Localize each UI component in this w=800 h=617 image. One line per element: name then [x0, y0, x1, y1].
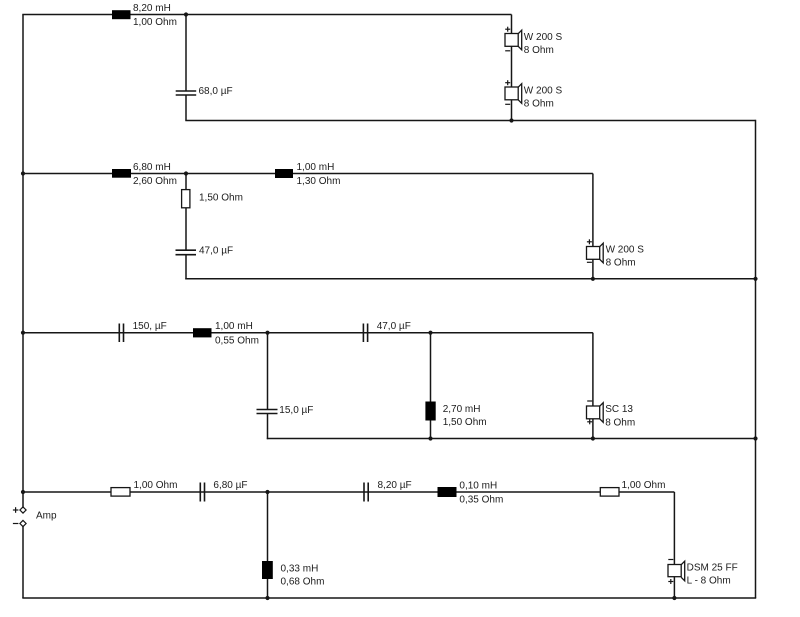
wire below second W200S to return: [511, 99, 513, 121]
wire section 3 return: [267, 438, 756, 440]
wire 68uF branch lower: [185, 95, 187, 121]
svg-text:0,33 mH: 0,33 mH: [281, 564, 319, 575]
svg-text:1,50 Ohm: 1,50 Ohm: [199, 192, 243, 203]
wire below SC13 speaker: [592, 418, 594, 439]
svg-text:1,00 Ohm: 1,00 Ohm: [133, 17, 177, 28]
svg-text:1,00 Ohm: 1,00 Ohm: [134, 480, 178, 491]
wire between W200S speakers: [511, 46, 513, 87]
capacitor 47.0 uF (section 3 series 2): [363, 321, 410, 342]
svg-text:2,60 Ohm: 2,60 Ohm: [133, 176, 177, 187]
svg-text:1,30 Ohm: 1,30 Ohm: [297, 176, 341, 187]
wire 68uF branch upper: [185, 15, 187, 92]
inductor 1.00 mH (section 3 series): [193, 321, 259, 346]
wire R-C branch: resistor to cap: [185, 208, 187, 250]
node junction DSM return: [672, 596, 676, 600]
wire section 3 feed: [23, 332, 593, 334]
svg-text:0,68 Ohm: 0,68 Ohm: [281, 577, 325, 588]
node junction left rail section 3: [21, 331, 25, 335]
wire 0.33mH branch lower: [267, 579, 269, 598]
svg-text:8 Ohm: 8 Ohm: [524, 45, 554, 56]
svg-text:1,50 Ohm: 1,50 Ohm: [443, 417, 487, 428]
wire bottom return: [22, 597, 756, 599]
node junction section 2 return right rail: [753, 277, 757, 281]
wire below DSM speaker: [673, 577, 675, 599]
svg-text:47,0 µF: 47,0 µF: [377, 321, 411, 332]
inductor 2.70 mH (section 3 shunt): [425, 402, 486, 428]
svg-text:0,10 mH: 0,10 mH: [459, 480, 497, 491]
capacitor 68.0 uF (section 1 shunt): [176, 86, 233, 97]
wire R-C branch: junction to resistor: [185, 174, 187, 190]
svg-text:1,00 mH: 1,00 mH: [215, 321, 253, 332]
speaker W 200 S (section 2): [587, 239, 645, 268]
capacitor 15.0 uF (section 3 shunt): [257, 405, 314, 416]
amp terminal + (diamond): [13, 507, 26, 513]
node junction 2.7mH branch top: [428, 331, 432, 335]
svg-text:0,55 Ohm: 0,55 Ohm: [215, 335, 259, 346]
wire 2.7mH branch upper: [430, 333, 432, 402]
node junction section 2 speaker return: [591, 277, 595, 281]
inductor 0.10 mH (section 4 series): [438, 480, 504, 505]
wire section 2 speaker drop: [592, 174, 594, 247]
speaker W 200 S lower: [505, 80, 562, 109]
svg-text:8,20 µF: 8,20 µF: [378, 480, 412, 491]
svg-text:47,0 µF: 47,0 µF: [199, 246, 233, 257]
svg-text:8,20 mH: 8,20 mH: [133, 3, 171, 14]
wire 2.7mH branch lower: [430, 421, 432, 439]
svg-text:2,70 mH: 2,70 mH: [443, 404, 481, 415]
capacitor 6.80 uF (section 4 series): [200, 480, 247, 501]
svg-text:8 Ohm: 8 Ohm: [605, 417, 635, 428]
wire right rail: [755, 120, 757, 598]
capacitor 47.0 uF (section 2 shunt): [176, 246, 234, 257]
node junction left rail section 2: [21, 171, 25, 175]
wire 0.33mH branch upper: [267, 492, 269, 561]
svg-text:1,00 Ohm: 1,00 Ohm: [622, 480, 666, 491]
resistor 1.00 Ohm (section 4 left): [111, 480, 177, 496]
speaker SC 13 (section 3, reversed polarity): [587, 401, 636, 428]
svg-text:8 Ohm: 8 Ohm: [606, 258, 636, 269]
wire section 1 speaker drop: [511, 15, 513, 35]
svg-text:SC 13: SC 13: [605, 404, 633, 415]
svg-text:W 200 S: W 200 S: [606, 244, 645, 255]
svg-text:68,0 µF: 68,0 µF: [199, 86, 233, 97]
wire left rail lower (amp - to bottom): [22, 527, 24, 599]
wire section 4 feed: [23, 491, 674, 493]
svg-text:W 200 S: W 200 S: [524, 85, 563, 96]
svg-text:0,35 Ohm: 0,35 Ohm: [459, 495, 503, 506]
wire 15uF branch lower: [267, 414, 269, 440]
node junction 0.33mH branch bottom: [265, 596, 269, 600]
node junction 15uF branch: [265, 331, 269, 335]
svg-text:6,80 mH: 6,80 mH: [133, 162, 171, 173]
node junction section 3 return right rail: [753, 436, 757, 440]
wire 15uF branch upper: [267, 333, 269, 410]
svg-text:W 200 S: W 200 S: [524, 32, 563, 43]
inductor 6.80 mH (section 2 series): [112, 162, 177, 187]
node junction speakers to section1 return: [509, 118, 513, 122]
svg-text:DSM 25 FF: DSM 25 FF: [687, 563, 738, 574]
amp terminal - (diamond): [13, 520, 26, 526]
svg-text:Amp: Amp: [36, 511, 57, 522]
svg-text:1,00 mH: 1,00 mH: [297, 162, 335, 173]
svg-text:8 Ohm: 8 Ohm: [524, 99, 554, 110]
node junction SC13 return: [591, 436, 595, 440]
wire top feed section 1: [22, 14, 511, 16]
resistor 1.50 Ohm (section 2 shunt): [182, 190, 243, 208]
node junction 0.33mH branch top: [265, 490, 269, 494]
wire left rail upper (amp + to top): [22, 15, 24, 508]
wire section 2 feed: [23, 173, 593, 175]
wire below section 2 speaker: [592, 259, 594, 279]
wire section 3 speaker drop: [592, 333, 594, 406]
node junction left rail section 4: [21, 490, 25, 494]
wire section 2 return: [185, 278, 755, 280]
speaker W 200 S upper: [505, 27, 562, 56]
inductor 8.20 mH (section 1 series): [112, 3, 177, 28]
speaker DSM 25 FF (section 4, reversed polarity): [668, 560, 738, 587]
inductor 0.33 mH (section 4 shunt): [262, 561, 324, 588]
wire section 4 speaker drop: [673, 492, 675, 565]
wire R-C branch: cap to return: [185, 255, 187, 280]
svg-text:6,80 µF: 6,80 µF: [213, 480, 247, 491]
svg-text:L - 8 Ohm: L - 8 Ohm: [687, 576, 731, 587]
svg-text:15,0 µF: 15,0 µF: [279, 405, 313, 416]
capacitor 150 uF (section 3 series): [119, 321, 166, 342]
node junction top at 68uF branch: [184, 12, 188, 16]
svg-text:150, µF: 150, µF: [133, 321, 167, 332]
resistor 1.00 Ohm (section 4 right): [600, 480, 665, 496]
node junction 2.7mH branch bottom: [428, 436, 432, 440]
capacitor 8.20 uF (section 4 series 2): [364, 480, 412, 501]
node junction section 2 branch: [184, 171, 188, 175]
wire section 1 return: [185, 120, 755, 122]
inductor 1.00 mH (section 2 series 2): [275, 162, 340, 187]
